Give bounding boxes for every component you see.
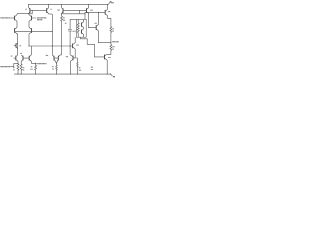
transistor Q8 xyxy=(25,5,30,14)
transistor Q19 xyxy=(81,28,83,38)
resistor R8 xyxy=(75,58,81,74)
resistor R3 xyxy=(30,63,36,74)
transistor Q18 xyxy=(81,19,83,27)
transistor Q7 left xyxy=(14,43,22,49)
node junction dot Q13 collector Q15 base xyxy=(88,27,89,28)
node junction dot offset null R1 xyxy=(18,63,19,64)
node V- terminal xyxy=(110,74,115,77)
transistor Q12 xyxy=(58,5,63,14)
node junction dot Q12 collector xyxy=(61,13,62,14)
node rail bottom junction dots xyxy=(18,74,78,75)
node junction dot Q4 collector bus xyxy=(28,45,29,46)
wire Q12-Q13 base xyxy=(63,10,86,12)
wire Q8 diode tap xyxy=(29,11,32,14)
transistor Q3 xyxy=(15,27,18,55)
node junction dot bus crossing xyxy=(52,45,53,46)
wire gain bus xyxy=(29,45,73,47)
wire Q1 Q2 collectors xyxy=(17,13,29,15)
text offset null 2 xyxy=(37,63,47,65)
node junction dot offset null 2 xyxy=(35,63,36,64)
transistor Q5 xyxy=(11,55,18,64)
transistor Q14 xyxy=(105,5,111,19)
text inverting input xyxy=(37,18,47,20)
wire into bias box top xyxy=(84,14,86,20)
transistor Q9 xyxy=(47,5,53,15)
resistor R4 xyxy=(52,64,57,75)
transistor Q11 xyxy=(57,55,62,64)
resistor R9 xyxy=(110,18,114,42)
node junction dot Q15 collector xyxy=(98,12,99,13)
node junction dot Q20 collector rail xyxy=(107,74,108,75)
node junction dot x85 xyxy=(85,13,86,14)
wire Q8-Q9 base xyxy=(30,10,47,12)
wire base tap to collector net xyxy=(79,11,81,14)
transistor Q6 middle xyxy=(20,53,29,63)
wire box bottom staircase to Q20 base xyxy=(81,37,105,57)
transistor Q17 xyxy=(66,55,75,74)
transistor bar emphasis strokes xyxy=(15,8,106,60)
node junction dot Q3Q4 base xyxy=(52,31,53,32)
resistor R5 xyxy=(61,14,66,55)
wire Q3 Q4 bases to Q9 collector xyxy=(15,30,53,32)
wire offset null 1 xyxy=(10,64,18,67)
wire Q12 collector to Q14 base xyxy=(62,12,106,13)
wire Q9 collector to Q10 vertical xyxy=(51,14,53,55)
transistor Q13 xyxy=(86,5,92,28)
transistor Q16 xyxy=(73,37,79,58)
node rail junction dots xyxy=(28,4,108,5)
transistor Q2 xyxy=(29,14,36,28)
bias network box Q18 Q19 xyxy=(76,19,86,37)
transistor Q1 xyxy=(15,14,17,28)
text output xyxy=(112,41,119,43)
node V+ terminal xyxy=(108,1,114,4)
text offset null 1 xyxy=(0,66,10,68)
wire non-inv input xyxy=(10,17,14,19)
resistor R1 xyxy=(13,64,19,74)
wire top V+ rail xyxy=(29,4,108,6)
node junction dot output xyxy=(110,42,111,43)
wire C1 top to box xyxy=(70,18,76,20)
transistor Q20 xyxy=(105,54,111,74)
capacitor C1 xyxy=(65,19,76,54)
transistor Q7b right xyxy=(29,46,35,63)
wire Q15 emitter to output xyxy=(99,42,111,44)
node junction dot input collectors xyxy=(28,13,29,14)
resistor R2 xyxy=(20,64,24,74)
transistor Q15 xyxy=(89,12,99,42)
resistor R10 xyxy=(107,43,115,55)
node junction dot Q15 emitter xyxy=(98,42,99,43)
transistor Q4 xyxy=(29,27,32,46)
text R11 label xyxy=(91,66,93,68)
text non-inverting input xyxy=(0,17,10,19)
transistor Q10 xyxy=(46,55,58,64)
wire bottom V- rail xyxy=(14,73,111,75)
resistor R10 inside box xyxy=(77,19,79,37)
node junction dot C1 bus xyxy=(70,45,71,46)
